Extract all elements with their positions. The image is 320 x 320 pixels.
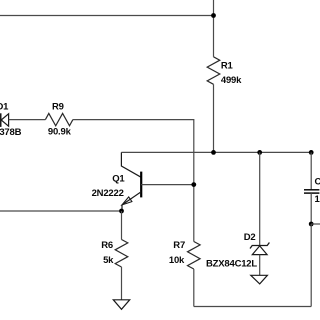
svg-text:C1: C1	[315, 176, 320, 187]
wire output stub	[311, 223, 320, 225]
diode D1	[1, 113, 9, 127]
svg-text:R1: R1	[221, 60, 234, 71]
capacitor C1	[304, 152, 319, 224]
svg-text:5k: 5k	[103, 255, 114, 266]
svg-text:1: 1	[315, 194, 320, 205]
zener diode D2	[250, 152, 269, 275]
ground below D2	[251, 275, 268, 284]
svg-text:R6: R6	[101, 240, 113, 251]
svg-text:D2: D2	[244, 232, 256, 243]
wire bottom rail	[194, 306, 311, 308]
junction D2 / collector rail	[257, 150, 262, 155]
svg-text:BZX84C12L: BZX84C12L	[206, 259, 257, 270]
wire R1 bottom lead	[213, 84, 215, 152]
svg-text:90.9k: 90.9k	[48, 126, 72, 137]
wire right vertical to bottom rail	[310, 224, 312, 307]
resistor R7	[188, 242, 201, 307]
junction C / collector rail	[309, 150, 314, 155]
resistor R9	[45, 113, 73, 125]
svg-text:2N2222: 2N2222	[92, 188, 124, 199]
base bar	[140, 172, 142, 198]
junction base / R7 vertical	[191, 182, 196, 187]
wire base to R7 net	[141, 184, 194, 186]
transistor Q1	[121, 152, 141, 211]
junction at top rail and R1	[211, 13, 216, 18]
wire collector rail	[121, 151, 311, 153]
collector lead	[121, 152, 141, 177]
wire vertical into R1 from top	[213, 0, 215, 57]
resistor R6	[115, 211, 128, 300]
svg-text:D1: D1	[0, 101, 9, 112]
svg-text:R9: R9	[52, 101, 64, 112]
svg-text:R7: R7	[173, 240, 185, 251]
wire emitter rail	[0, 210, 122, 212]
svg-text:10k: 10k	[169, 255, 185, 266]
svg-text:Q1: Q1	[112, 174, 125, 185]
svg-text:1N5378B: 1N5378B	[0, 127, 22, 138]
svg-text:499k: 499k	[221, 75, 242, 86]
emitter lead with arrow	[122, 192, 141, 205]
junction R1 / collector rail	[211, 150, 216, 155]
wire R9 to corner	[73, 120, 194, 242]
resistor R1	[207, 57, 220, 85]
junction C branch / output stub	[309, 222, 314, 227]
wire top rail	[0, 15, 214, 17]
junction emitter / R6	[119, 209, 124, 214]
ground below R6	[113, 300, 129, 310]
wire D1 to R9	[9, 119, 46, 121]
